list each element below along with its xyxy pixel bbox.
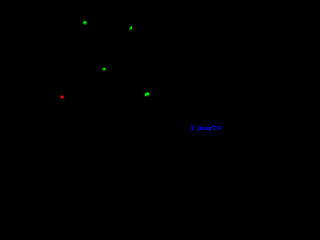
green particle P3: [103, 68, 106, 71]
green particle P1: [83, 21, 87, 24]
green particle P5: [145, 92, 150, 96]
green particle P2: [129, 26, 132, 30]
svg-text:ΣW: ΣW: [212, 125, 223, 132]
blue annotation label "X βmax / ΣW": [189, 124, 223, 133]
svg-text:βmax: βmax: [197, 125, 211, 132]
svg-text:X: X: [189, 124, 196, 133]
red particle P4: [61, 96, 64, 99]
